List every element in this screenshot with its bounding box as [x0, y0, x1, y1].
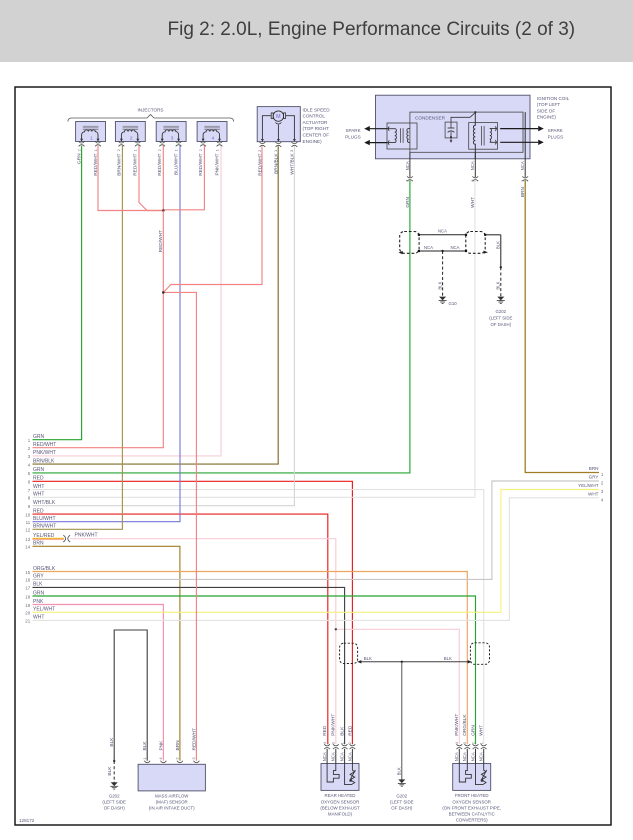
svg-text:BLU/WHT: BLU/WHT — [174, 153, 180, 175]
svg-text:GRY: GRY — [589, 475, 599, 480]
wire YEL/RED row13 (two-tone) — [33, 537, 64, 539]
coil pin 1 — [522, 176, 528, 181]
svg-text:RED/WHT: RED/WHT — [198, 153, 204, 175]
coil pin stubs — [409, 152, 411, 177]
wire RED/WHT branch S2 to MAF pin 3 — [163, 292, 196, 760]
wire WHT row21 to right connector 4 — [33, 498, 600, 621]
svg-text:GRN: GRN — [33, 590, 45, 596]
svg-text:PLUGS: PLUGS — [345, 134, 361, 139]
svg-text:WHT/BLK: WHT/BLK — [33, 500, 56, 506]
svg-text:NCA: NCA — [462, 752, 467, 761]
svg-text:15: 15 — [25, 570, 30, 575]
inline connector on GRN wire — [400, 232, 419, 254]
wire GRN row18 to front O2 pin 2 — [33, 596, 476, 744]
svg-text:WHT: WHT — [33, 492, 44, 498]
svg-text:BLK: BLK — [142, 741, 148, 751]
svg-text:CONDENSER: CONDENSER — [415, 115, 446, 120]
svg-text:RED/WHT: RED/WHT — [93, 153, 99, 175]
ground G202 (left bottom) — [110, 783, 118, 789]
svg-text:BLK: BLK — [444, 656, 452, 661]
svg-text:10: 10 — [25, 512, 30, 517]
NCA wire upper — [419, 234, 466, 236]
svg-text:19: 19 — [25, 603, 30, 608]
svg-text:BLU/WHT: BLU/WHT — [33, 516, 56, 522]
svg-text:SPARK: SPARK — [345, 128, 361, 133]
wire ORG/BLK row15 to front O2 pin 3 — [33, 572, 468, 745]
wire BLK MAF pin1 loop to G202 ground — [114, 630, 147, 761]
idle speed control actuator — [257, 107, 300, 176]
splice connector on row 13 — [63, 535, 65, 542]
svg-text:16: 16 — [25, 578, 30, 583]
wire BLK linking O2 connectors with ground tap — [360, 661, 468, 663]
wire RED/WHT injector 1 pin 1 to splice S1 — [98, 146, 163, 211]
svg-text:BRN/WHT: BRN/WHT — [116, 153, 122, 175]
svg-text:WHT/BLK: WHT/BLK — [289, 153, 295, 175]
svg-text:GRN: GRN — [77, 153, 83, 164]
splice S2 junction dot — [162, 291, 165, 294]
svg-text:RED/WHT: RED/WHT — [157, 153, 163, 175]
svg-text:BRN: BRN — [175, 740, 181, 751]
junction dot PNK/WHT — [335, 628, 337, 630]
svg-text:BRN: BRN — [589, 466, 599, 471]
condenser (capacitor) — [445, 122, 457, 138]
header bar — [0, 0, 633, 62]
svg-text:NCA: NCA — [479, 752, 484, 761]
wire BLK from WHT connector to G202 — [485, 234, 501, 236]
svg-text:17: 17 — [25, 586, 30, 591]
INJECTORS brace — [68, 115, 234, 122]
ground G202 (upper) — [497, 297, 505, 303]
svg-text:GRN: GRN — [33, 434, 45, 440]
svg-text:NCA: NCA — [340, 752, 345, 761]
svg-text:Fig 2: 2.0L, Engine Performanc: Fig 2: 2.0L, Engine Performance Circuits… — [168, 19, 576, 40]
coil 1 spark terminals — [388, 127, 389, 131]
svg-text:NCA: NCA — [450, 245, 459, 250]
wire WHT row8 to ignition coil pin 3 — [33, 180, 475, 497]
svg-text:WHT: WHT — [470, 197, 476, 208]
wire BLK row17 to rear O2 pin 1 — [33, 587, 345, 744]
front heated oxygen sensor — [453, 714, 491, 791]
svg-text:RED: RED — [33, 476, 44, 482]
wire PNK/WHT branch to front O2 pin 4 — [336, 629, 460, 744]
svg-text:WHT: WHT — [479, 725, 485, 736]
svg-text:RED: RED — [33, 508, 44, 514]
wire RED row10 to rear O2 sensor pin 4 — [33, 514, 328, 744]
svg-text:PNK/WHT: PNK/WHT — [75, 532, 98, 538]
svg-text:PNK/WHT: PNK/WHT — [454, 714, 460, 736]
svg-text:BLK: BLK — [438, 281, 443, 289]
svg-text:PNK: PNK — [33, 599, 44, 605]
svg-text:BRN/WHT: BRN/WHT — [33, 524, 56, 530]
terminal numbers and wire name labels, rows 1-21 — [33, 434, 56, 621]
coil 2 (right transformer) — [469, 123, 498, 150]
svg-text:14: 14 — [25, 545, 30, 550]
ground G10 — [439, 297, 447, 303]
svg-text:BLK: BLK — [397, 767, 402, 775]
svg-text:RED/WHT: RED/WHT — [191, 728, 197, 750]
svg-text:BRN/BLK: BRN/BLK — [33, 458, 55, 464]
wire WHT row7 to front O2 sensor pin 1 — [33, 490, 484, 745]
ignition coil assembly box — [376, 95, 531, 177]
wire RED/WHT injector 3 pin 1 to splice S1 — [162, 146, 164, 211]
svg-text:NCA: NCA — [470, 161, 475, 170]
wire PNK/WHT row13 to rear O2 pin 3 and branch junction — [70, 539, 336, 745]
inline connector on WHT wire — [466, 232, 485, 254]
wire GRN row5 to ignition coil pin 2 — [33, 180, 410, 473]
inline connector at rear O2 sensor — [340, 643, 358, 663]
svg-text:NCA: NCA — [470, 752, 475, 761]
NCA wire lower with ground tap — [419, 250, 466, 252]
svg-text:NCA: NCA — [438, 229, 447, 234]
wire GRN row1 to injector 1 pin 2 — [33, 146, 82, 440]
coil pin 3 — [472, 176, 478, 181]
wire PNK/WHT row3 to injector 4 pin 1 — [33, 146, 222, 456]
svg-text:GRN: GRN — [33, 467, 45, 473]
ground G202 (bottom middle) — [398, 780, 406, 786]
svg-text:G10: G10 — [449, 301, 458, 306]
svg-text:NCA: NCA — [520, 161, 525, 170]
mass airflow (MAF) sensor — [138, 728, 205, 791]
splice S1 junction dot — [162, 209, 165, 212]
svg-text:M: M — [276, 114, 281, 120]
wire WHT/BLK row9 to ISC pin 3 — [33, 146, 295, 506]
svg-text:PLUGS: PLUGS — [548, 134, 564, 139]
svg-text:BLK: BLK — [33, 582, 43, 588]
svg-text:12: 12 — [25, 528, 30, 533]
svg-text:RED: RED — [347, 725, 353, 736]
wire BRN/BLK row4 to ISC pin 1 — [33, 146, 279, 464]
wire BRN coil pin1 to right connector 1 — [525, 180, 599, 472]
svg-text:BLK: BLK — [107, 766, 113, 776]
coil 2 spark terminals — [495, 127, 496, 131]
spark plug lines right — [500, 129, 538, 143]
svg-text:BRN: BRN — [33, 541, 44, 547]
svg-text:INJECTORS: INJECTORS — [138, 108, 164, 113]
svg-text:128172: 128172 — [19, 818, 35, 823]
injector 1 — [76, 122, 106, 176]
rear heated oxygen sensor — [321, 714, 359, 791]
wire RED/WHT injector 2 pin 1 to splice S1 — [139, 146, 163, 211]
svg-text:PNK: PNK — [158, 740, 164, 751]
injector 2 — [115, 122, 145, 176]
svg-text:21: 21 — [25, 619, 30, 624]
svg-text:YEL/WHT: YEL/WHT — [578, 483, 599, 488]
inline connector at front O2 sensor — [470, 643, 489, 665]
svg-text:GRN: GRN — [405, 196, 411, 207]
svg-text:NCA: NCA — [454, 752, 459, 761]
wire BLU/WHT row11 to injector 3 pin 1 — [33, 146, 181, 522]
wire RED/WHT injector 4 pin 1 to splice S1 — [163, 146, 204, 210]
svg-text:NCA: NCA — [347, 752, 352, 761]
svg-text:BRN/BLK: BRN/BLK — [273, 153, 279, 174]
svg-text:BLK: BLK — [496, 241, 501, 249]
wire PNK row19 to MAF sensor pin 4 — [33, 605, 164, 761]
injector 3 — [156, 122, 186, 176]
svg-text:GRY: GRY — [33, 574, 44, 580]
wire BLK to G202 (bottom middle) — [401, 662, 403, 780]
wire RED/WHT trunk S1 to S2 — [162, 211, 164, 293]
svg-text:NCA: NCA — [331, 752, 336, 761]
wire RED/WHT row2 (to splice S2) — [33, 292, 164, 447]
svg-text:PNK/WHT: PNK/WHT — [331, 714, 337, 736]
svg-text:RED/WHT: RED/WHT — [33, 442, 56, 448]
svg-text:13: 13 — [25, 537, 30, 542]
svg-text:BLK: BLK — [340, 726, 346, 736]
wire GRY row16 to right connector 2 — [33, 481, 600, 579]
wire BLK dashed to G10 — [442, 251, 444, 297]
svg-text:BLK: BLK — [364, 656, 372, 661]
svg-text:NCA: NCA — [424, 245, 433, 250]
svg-text:RED/WHT: RED/WHT — [257, 153, 263, 175]
svg-text:20: 20 — [25, 611, 30, 616]
condenser assembly inner box — [410, 112, 523, 152]
svg-text:ORG/BLK: ORG/BLK — [462, 714, 468, 736]
svg-text:NCA: NCA — [322, 752, 327, 761]
coil pin 2 — [407, 176, 413, 181]
wire RED/WHT ISC pin 2 branch to S2 — [163, 146, 262, 292]
svg-text:RED: RED — [322, 725, 328, 736]
svg-text:WHT: WHT — [588, 491, 599, 496]
svg-text:BLK: BLK — [496, 281, 501, 289]
wire YEL/WHT row20 to right connector 3 — [33, 490, 600, 613]
injector 4 — [197, 122, 227, 176]
svg-text:SPARK: SPARK — [548, 128, 564, 133]
svg-text:BLK: BLK — [109, 737, 115, 747]
wire BRN/WHT row12 to injector 2 pin 2 — [33, 146, 123, 530]
spark plug lines left — [370, 129, 388, 143]
wire RED row6 to rear O2 sensor pin 2 — [33, 481, 353, 744]
svg-text:ORG/BLK: ORG/BLK — [33, 566, 56, 572]
svg-text:18: 18 — [25, 594, 30, 599]
wire BRN row14 to MAF sensor pin 2 — [33, 546, 180, 761]
svg-text:PNK/WHT: PNK/WHT — [214, 153, 220, 175]
svg-text:NCA: NCA — [405, 161, 410, 170]
svg-text:WHT: WHT — [33, 615, 44, 621]
svg-text:GRN: GRN — [470, 725, 476, 736]
condenser feed wire to junction — [451, 112, 475, 122]
svg-text:YEL/WHT: YEL/WHT — [33, 607, 55, 613]
coil 1 (left transformer) — [387, 123, 417, 149]
svg-text:11: 11 — [26, 520, 31, 525]
svg-text:PNK/WHT: PNK/WHT — [33, 450, 56, 456]
svg-text:WHT: WHT — [33, 484, 44, 490]
svg-text:RED/WHT: RED/WHT — [133, 153, 139, 175]
